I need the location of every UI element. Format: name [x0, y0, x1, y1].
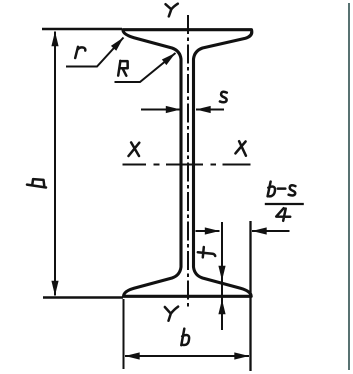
(b-s)/4 dimension right arrow [252, 230, 290, 232]
s dimension right arrow [196, 109, 224, 111]
h dimension line with arrows [54, 32, 56, 296]
s dimension left arrow [141, 109, 181, 111]
label 4 denominator [276, 208, 290, 221]
t dimension down arrow [221, 240, 223, 281]
label r [75, 47, 85, 58]
b dimension line with arrows [125, 355, 249, 357]
h dimension extension line bottom [43, 296, 123, 298]
(b-s)/4 dimension left arrow [196, 230, 220, 232]
b dimension extension line right [249, 221, 251, 371]
Y axis centerline [187, 15, 189, 309]
t dimension vertical line [221, 222, 223, 330]
label s [220, 92, 227, 103]
label Y top [166, 4, 178, 17]
I-beam outline [123, 30, 252, 297]
t dimension up arrow [221, 300, 223, 329]
label b-s numerator [268, 182, 296, 197]
h dimension extension line top [42, 28, 122, 30]
label b [181, 329, 189, 346]
label Y bottom [165, 307, 178, 321]
label t [198, 247, 215, 257]
X axis centerline [123, 164, 251, 166]
fraction bar [265, 203, 304, 205]
label X right [235, 141, 246, 156]
label h [27, 179, 46, 187]
label X left [129, 142, 140, 156]
page right border line [348, 3, 350, 370]
R leader line with arrow [115, 53, 176, 82]
label R [118, 61, 128, 76]
r leader line with arrow [66, 38, 124, 67]
b dimension extension line left [123, 299, 125, 369]
